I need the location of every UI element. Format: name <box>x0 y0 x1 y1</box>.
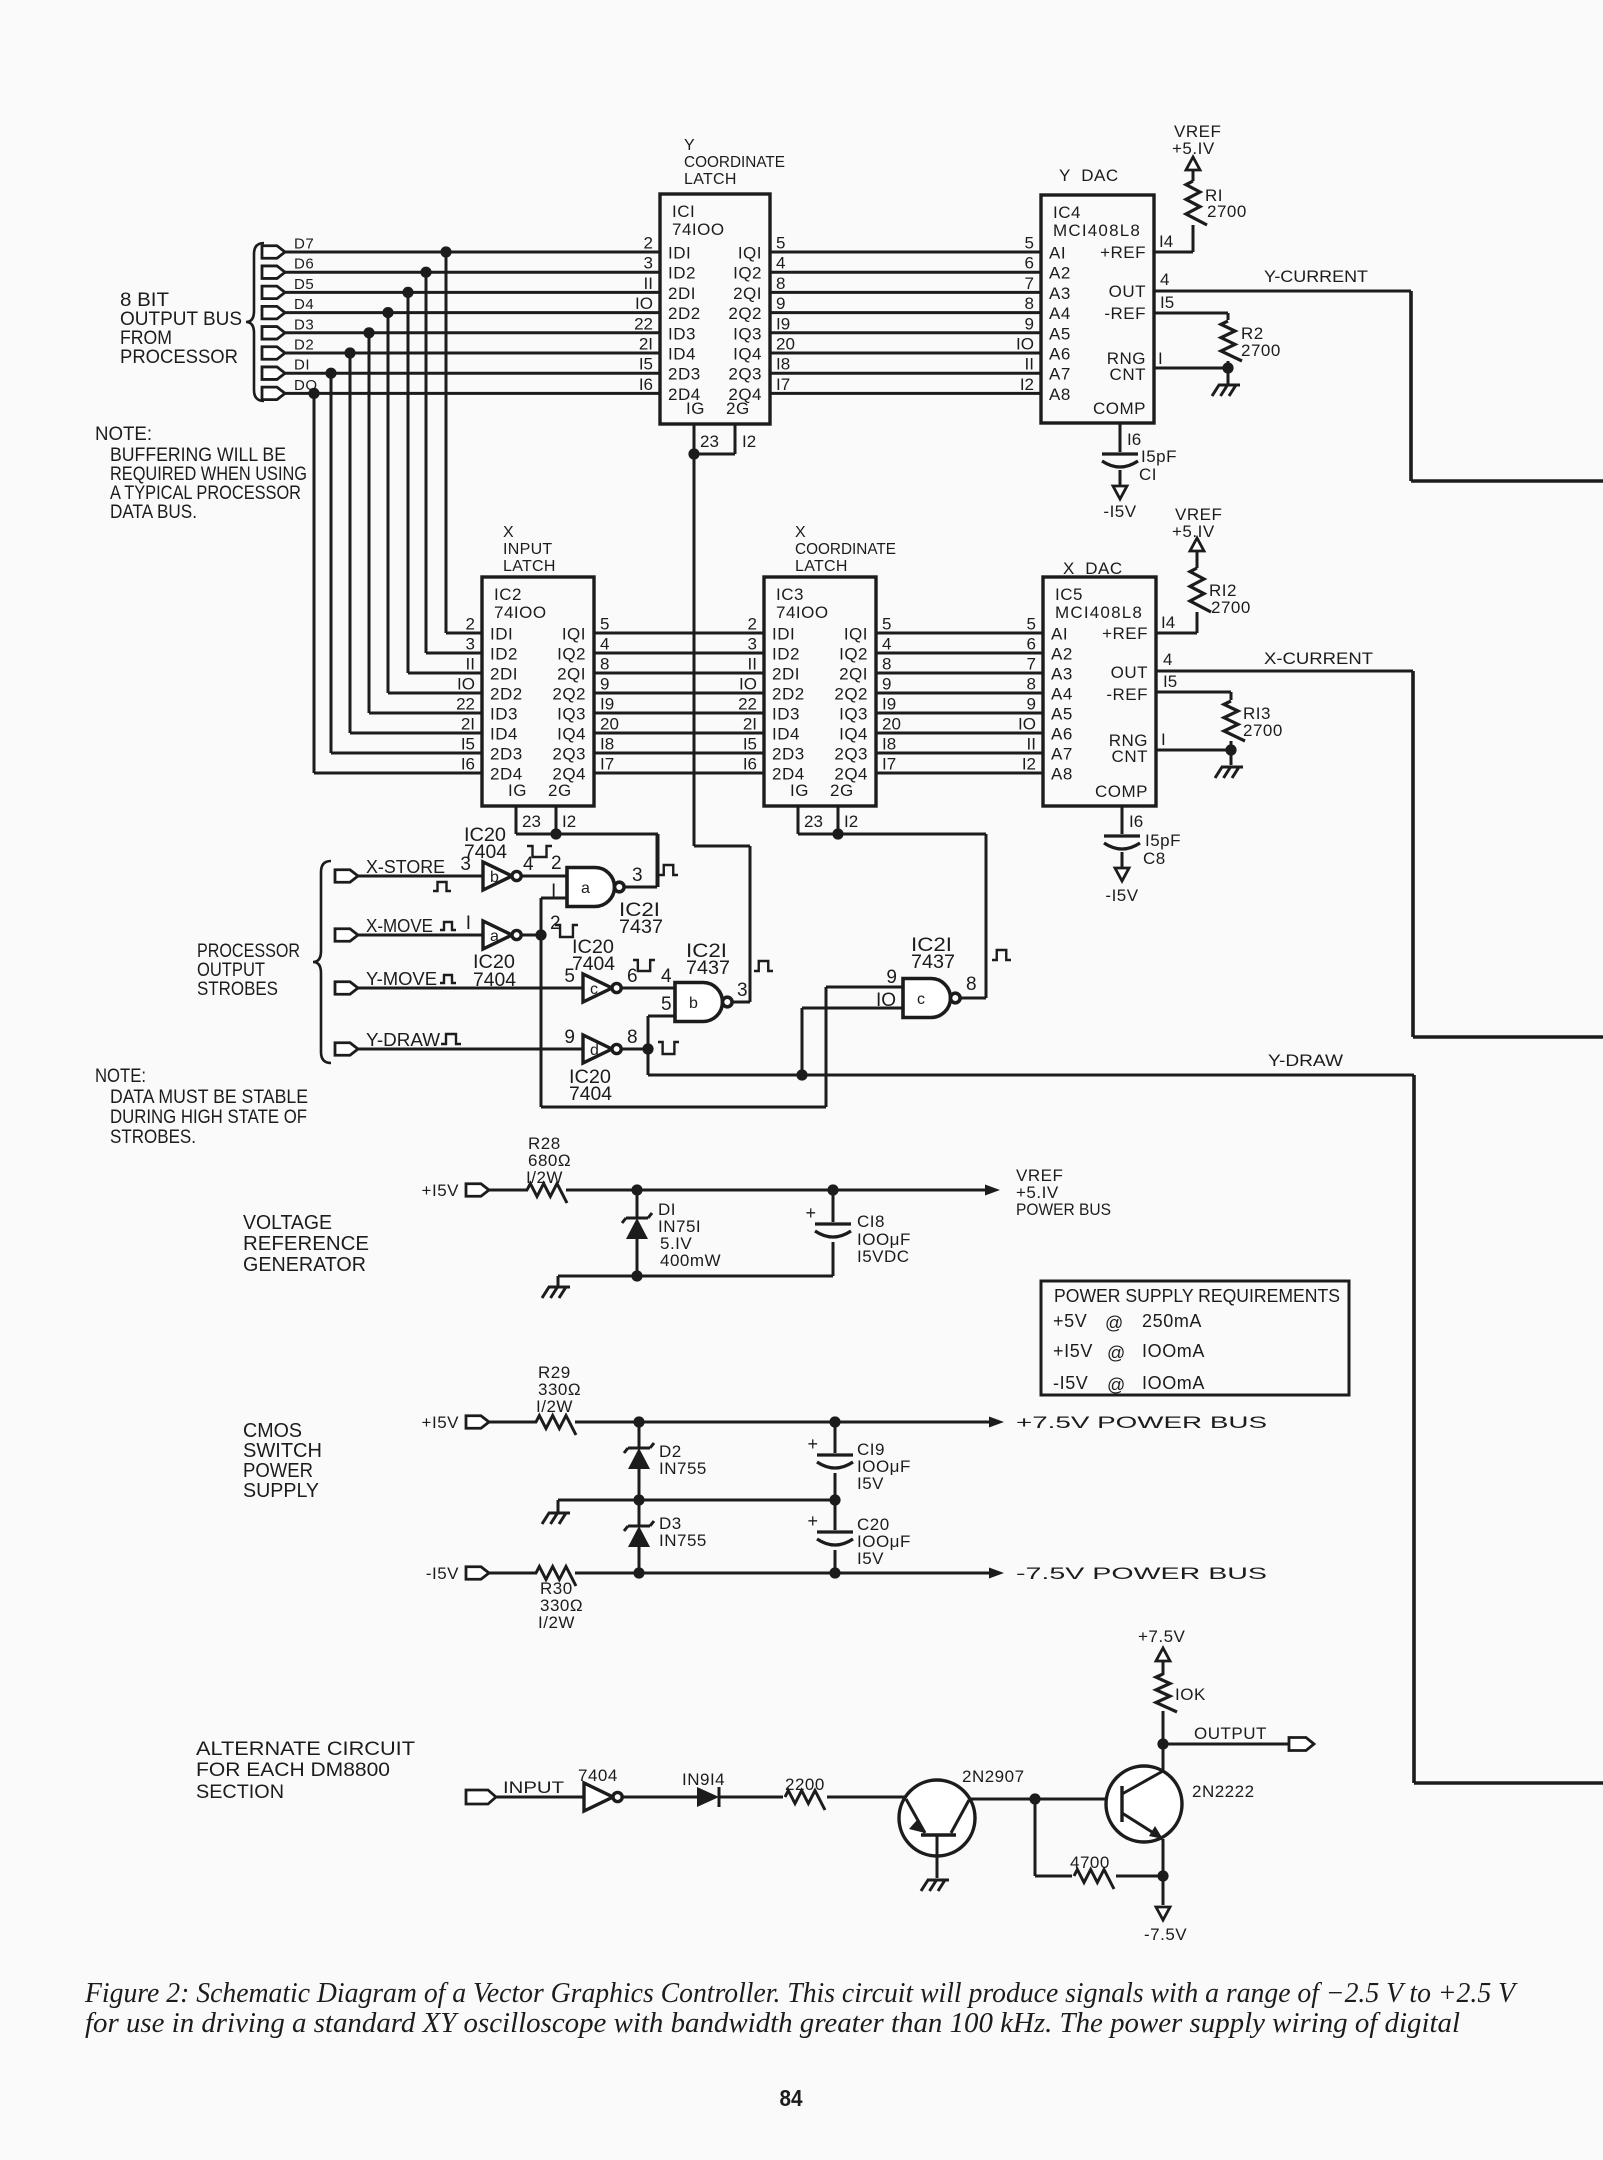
svg-text:A7: A7 <box>1049 365 1071 384</box>
svg-text:3: 3 <box>748 635 757 654</box>
svg-text:AI: AI <box>1049 244 1066 263</box>
svg-text:NOTE:: NOTE: <box>95 1066 146 1087</box>
svg-text:+REF: +REF <box>1100 243 1146 262</box>
svg-text:2700: 2700 <box>1243 721 1283 740</box>
svg-text:9: 9 <box>1025 314 1034 333</box>
svg-text:II: II <box>1025 355 1034 374</box>
svg-text:BUFFERING WILL BE: BUFFERING WILL BE <box>110 445 286 466</box>
svg-text:74IOO: 74IOO <box>776 603 829 622</box>
svg-text:I5V: I5V <box>857 1549 884 1568</box>
svg-text:I2: I2 <box>562 812 576 831</box>
svg-text:8: 8 <box>627 1027 638 1048</box>
svg-text:I2: I2 <box>742 432 756 451</box>
svg-text:I4: I4 <box>1159 232 1173 251</box>
svg-text:ID2: ID2 <box>668 264 696 283</box>
svg-text:D4: D4 <box>294 296 314 313</box>
svg-text:2200: 2200 <box>785 1775 825 1794</box>
svg-text:b: b <box>490 869 499 886</box>
svg-text:2: 2 <box>551 853 562 874</box>
svg-text:IO: IO <box>1016 335 1034 354</box>
svg-text:INPUT: INPUT <box>503 541 553 558</box>
svg-text:I9: I9 <box>600 695 614 714</box>
svg-text:X: X <box>795 524 806 541</box>
svg-text:2D3: 2D3 <box>490 745 523 764</box>
svg-text:AI: AI <box>1051 625 1068 644</box>
svg-text:2: 2 <box>748 615 757 634</box>
svg-text:I: I <box>466 913 471 934</box>
svg-text:2D2: 2D2 <box>668 304 701 323</box>
svg-text:Y-DRAW: Y-DRAW <box>1268 1051 1343 1070</box>
svg-text:2700: 2700 <box>1241 341 1281 360</box>
svg-text:8: 8 <box>966 974 977 995</box>
svg-text:I6: I6 <box>743 755 757 774</box>
svg-text:-7.5V POWER BUS: -7.5V POWER BUS <box>1016 1564 1267 1583</box>
svg-text:3: 3 <box>632 865 643 886</box>
svg-text:-7.5V: -7.5V <box>1144 1925 1187 1944</box>
svg-text:A5: A5 <box>1049 324 1071 343</box>
svg-text:I9: I9 <box>882 695 896 714</box>
svg-text:ID2: ID2 <box>772 645 800 664</box>
svg-text:A2: A2 <box>1049 264 1071 283</box>
svg-text:4: 4 <box>776 254 785 273</box>
svg-text:3: 3 <box>737 980 748 1001</box>
svg-text:POWER SUPPLY REQUIREMENTS: POWER SUPPLY REQUIREMENTS <box>1054 1286 1340 1306</box>
svg-text:A5: A5 <box>1051 705 1073 724</box>
svg-text:SUPPLY: SUPPLY <box>243 1480 319 1502</box>
svg-text:X-STORE: X-STORE <box>366 857 445 877</box>
svg-text:6: 6 <box>627 966 638 987</box>
svg-text:9: 9 <box>564 1027 575 1048</box>
svg-text:7437: 7437 <box>686 958 730 979</box>
svg-text:SECTION: SECTION <box>196 1782 284 1803</box>
svg-text:COORDINATE: COORDINATE <box>684 154 785 171</box>
svg-text:IQ4: IQ4 <box>839 725 868 744</box>
svg-text:ALTERNATE CIRCUIT: ALTERNATE CIRCUIT <box>196 1739 415 1760</box>
svg-text:2D2: 2D2 <box>772 685 805 704</box>
svg-text:I7: I7 <box>600 755 614 774</box>
svg-text:2QI: 2QI <box>839 665 868 684</box>
svg-text:LATCH: LATCH <box>503 558 556 575</box>
svg-text:a: a <box>490 928 499 945</box>
svg-text:A TYPICAL PROCESSOR: A TYPICAL PROCESSOR <box>110 483 301 504</box>
svg-text:X DAC: X DAC <box>1063 559 1123 578</box>
svg-text:OUT: OUT <box>1109 282 1146 301</box>
svg-text:2DI: 2DI <box>772 665 800 684</box>
svg-text:+5V: +5V <box>1053 1311 1087 1331</box>
svg-text:A4: A4 <box>1049 304 1071 323</box>
svg-text:IG: IG <box>508 781 527 800</box>
svg-text:-I5V: -I5V <box>1053 1373 1088 1393</box>
svg-text:I/2W: I/2W <box>538 1613 575 1632</box>
svg-text:b: b <box>689 995 698 1012</box>
svg-text:IG: IG <box>686 399 705 418</box>
svg-text:ICI: ICI <box>672 202 695 221</box>
svg-text:23: 23 <box>522 812 541 831</box>
svg-text:X-MOVE: X-MOVE <box>366 916 433 936</box>
svg-text:REQUIRED WHEN USING: REQUIRED WHEN USING <box>110 464 307 485</box>
svg-text:CMOS: CMOS <box>243 1420 302 1442</box>
svg-text:I6: I6 <box>639 375 653 394</box>
svg-text:4700: 4700 <box>1070 1853 1110 1872</box>
svg-text:COORDINATE: COORDINATE <box>795 541 896 558</box>
svg-text:CI8: CI8 <box>857 1212 885 1231</box>
svg-text:+REF: +REF <box>1102 624 1148 643</box>
svg-text:IOOmA: IOOmA <box>1142 1373 1205 1393</box>
svg-text:PROCESSOR: PROCESSOR <box>197 941 300 962</box>
svg-text:I5VDC: I5VDC <box>857 1247 910 1266</box>
svg-text:X-CURRENT: X-CURRENT <box>1264 649 1373 668</box>
svg-text:2D3: 2D3 <box>668 365 701 384</box>
svg-text:2G: 2G <box>830 781 854 800</box>
svg-text:8: 8 <box>882 655 891 674</box>
svg-text:IN9I4: IN9I4 <box>682 1770 725 1789</box>
svg-text:7437: 7437 <box>911 952 955 973</box>
svg-text:2I: 2I <box>743 715 757 734</box>
svg-text:22: 22 <box>634 314 653 333</box>
svg-text:I5: I5 <box>461 735 475 754</box>
svg-text:MCI408L8: MCI408L8 <box>1055 603 1143 622</box>
svg-text:A8: A8 <box>1049 385 1071 404</box>
svg-text:IO: IO <box>1018 715 1036 734</box>
svg-text:+: + <box>807 1511 818 1531</box>
svg-text:IG: IG <box>790 781 809 800</box>
svg-text:2Q3: 2Q3 <box>728 365 762 384</box>
svg-text:5: 5 <box>564 966 575 987</box>
svg-text:-I5V: -I5V <box>1103 502 1136 521</box>
svg-text:I7: I7 <box>776 375 790 394</box>
svg-text:OUTPUT: OUTPUT <box>197 960 265 981</box>
svg-text:A6: A6 <box>1049 345 1071 364</box>
svg-text:I8: I8 <box>600 735 614 754</box>
svg-text:A3: A3 <box>1051 665 1073 684</box>
svg-text:2N2222: 2N2222 <box>1192 1782 1255 1801</box>
svg-text:9: 9 <box>1027 695 1036 714</box>
svg-text:4: 4 <box>600 635 609 654</box>
svg-text:20: 20 <box>882 715 901 734</box>
svg-text:A3: A3 <box>1049 284 1071 303</box>
svg-text:+I5V: +I5V <box>1053 1341 1093 1361</box>
svg-text:2Q3: 2Q3 <box>834 745 868 764</box>
svg-text:7437: 7437 <box>619 917 663 938</box>
svg-text:IO: IO <box>739 675 757 694</box>
svg-text:20: 20 <box>776 335 795 354</box>
svg-text:I5pF: I5pF <box>1145 831 1181 850</box>
svg-text:A8: A8 <box>1051 765 1073 784</box>
svg-text:4: 4 <box>1160 270 1169 289</box>
svg-text:IN755: IN755 <box>659 1531 707 1550</box>
svg-text:IO: IO <box>457 675 475 694</box>
svg-text:IC5: IC5 <box>1055 585 1083 604</box>
svg-text:+7.5V: +7.5V <box>1138 1627 1186 1646</box>
svg-text:A7: A7 <box>1051 745 1073 764</box>
svg-text:7: 7 <box>1027 655 1036 674</box>
svg-text:OUTPUT BUS: OUTPUT BUS <box>120 309 242 330</box>
svg-text:6: 6 <box>1025 254 1034 273</box>
svg-text:22: 22 <box>738 695 757 714</box>
svg-text:2D3: 2D3 <box>772 745 805 764</box>
svg-text:+I5V: +I5V <box>422 1181 460 1200</box>
svg-text:I6: I6 <box>1127 430 1141 449</box>
svg-text:I2: I2 <box>1022 755 1036 774</box>
svg-text:IDI: IDI <box>772 625 795 644</box>
svg-text:FROM: FROM <box>120 328 172 349</box>
svg-text:C8: C8 <box>1143 849 1166 868</box>
svg-text:2: 2 <box>644 234 653 253</box>
svg-text:I5: I5 <box>639 355 653 374</box>
svg-text:9: 9 <box>882 675 891 694</box>
svg-text:STROBES.: STROBES. <box>110 1127 196 1148</box>
svg-text:+I5V: +I5V <box>422 1413 460 1432</box>
svg-text:IC4: IC4 <box>1053 203 1081 222</box>
svg-text:7: 7 <box>1025 274 1034 293</box>
svg-text:2QI: 2QI <box>557 665 586 684</box>
svg-text:I6: I6 <box>1129 812 1143 831</box>
svg-text:Y-MOVE: Y-MOVE <box>366 969 437 989</box>
svg-text:23: 23 <box>700 432 719 451</box>
svg-text:I: I <box>1158 349 1163 368</box>
svg-text:c: c <box>917 991 925 1008</box>
svg-text:ID2: ID2 <box>490 645 518 664</box>
svg-text:ID3: ID3 <box>772 705 800 724</box>
svg-text:7404: 7404 <box>569 1084 612 1105</box>
svg-text:2I: 2I <box>461 715 475 734</box>
svg-text:ID4: ID4 <box>490 725 518 744</box>
svg-text:c: c <box>590 981 598 998</box>
svg-text:II: II <box>466 655 475 674</box>
svg-text:IQ3: IQ3 <box>839 705 868 724</box>
svg-text:-I5V: -I5V <box>426 1564 459 1583</box>
svg-text:IQI: IQI <box>844 625 868 644</box>
svg-text:D6: D6 <box>294 256 314 273</box>
svg-text:DATA MUST BE STABLE: DATA MUST BE STABLE <box>110 1087 308 1108</box>
svg-text:IO: IO <box>635 294 653 313</box>
svg-text:2QI: 2QI <box>733 284 762 303</box>
svg-text:5: 5 <box>661 994 672 1015</box>
svg-text:2700: 2700 <box>1211 598 1251 617</box>
svg-text:I4: I4 <box>1161 613 1175 632</box>
svg-text:A4: A4 <box>1051 685 1073 704</box>
svg-text:6: 6 <box>1027 635 1036 654</box>
svg-text:@: @ <box>1107 1375 1125 1395</box>
svg-text:8 BIT: 8 BIT <box>120 290 169 311</box>
svg-text:COMP: COMP <box>1093 399 1146 418</box>
svg-text:+5.IV: +5.IV <box>1172 139 1215 158</box>
svg-text:Y-CURRENT: Y-CURRENT <box>1264 267 1368 286</box>
svg-text:ID3: ID3 <box>668 324 696 343</box>
svg-text:2N2907: 2N2907 <box>962 1767 1025 1786</box>
svg-text:I7: I7 <box>882 755 896 774</box>
svg-text:74IOO: 74IOO <box>672 220 725 239</box>
svg-text:LATCH: LATCH <box>795 558 848 575</box>
svg-text:I6: I6 <box>461 755 475 774</box>
svg-text:CI: CI <box>1139 465 1157 484</box>
svg-text:I5: I5 <box>1163 672 1177 691</box>
svg-text:2Q2: 2Q2 <box>834 685 868 704</box>
svg-text:7404: 7404 <box>572 954 615 975</box>
svg-text:2700: 2700 <box>1207 202 1247 221</box>
svg-text:II: II <box>644 274 653 293</box>
svg-text:I5: I5 <box>1160 293 1174 312</box>
svg-text:IN755: IN755 <box>659 1459 707 1478</box>
svg-text:a: a <box>581 880 590 897</box>
svg-text:D3: D3 <box>294 316 314 333</box>
svg-text:I5V: I5V <box>857 1474 884 1493</box>
svg-text:LATCH: LATCH <box>684 171 737 188</box>
svg-text:PROCESSOR: PROCESSOR <box>120 347 238 368</box>
svg-text:+7.5V POWER BUS: +7.5V POWER BUS <box>1016 1413 1267 1432</box>
svg-text:DURING HIGH STATE OF: DURING HIGH STATE OF <box>110 1107 307 1128</box>
svg-text:2Q2: 2Q2 <box>728 304 762 323</box>
svg-text:250mA: 250mA <box>1142 1311 1202 1331</box>
svg-text:ID4: ID4 <box>772 725 800 744</box>
svg-text:IQ3: IQ3 <box>557 705 586 724</box>
svg-text:Y DAC: Y DAC <box>1059 166 1119 185</box>
svg-text:OUT: OUT <box>1111 663 1148 682</box>
svg-text:+: + <box>805 1203 816 1223</box>
svg-text:I5pF: I5pF <box>1141 447 1177 466</box>
svg-text:MCI408L8: MCI408L8 <box>1053 221 1141 240</box>
svg-text:8: 8 <box>600 655 609 674</box>
svg-text:22: 22 <box>456 695 475 714</box>
svg-text:I9: I9 <box>776 314 790 333</box>
svg-text:IQI: IQI <box>738 244 762 263</box>
svg-text:I2: I2 <box>1020 375 1034 394</box>
svg-text:POWER BUS: POWER BUS <box>1016 1200 1111 1219</box>
svg-text:d: d <box>590 1042 599 1059</box>
svg-text:+5.IV: +5.IV <box>1172 522 1215 541</box>
svg-text:II: II <box>1027 735 1036 754</box>
svg-text:5: 5 <box>776 234 785 253</box>
svg-text:Y: Y <box>684 137 695 154</box>
svg-text:REFERENCE: REFERENCE <box>243 1233 369 1255</box>
svg-text:STROBES: STROBES <box>197 979 278 1000</box>
svg-text:VOLTAGE: VOLTAGE <box>243 1212 332 1234</box>
svg-text:IQ3: IQ3 <box>733 324 762 343</box>
svg-text:@: @ <box>1107 1343 1125 1363</box>
svg-text:23: 23 <box>804 812 823 831</box>
svg-text:9: 9 <box>600 675 609 694</box>
svg-text:I: I <box>1161 730 1166 749</box>
svg-text:7404: 7404 <box>578 1766 618 1785</box>
svg-text:9: 9 <box>886 967 897 988</box>
svg-text:ID3: ID3 <box>490 705 518 724</box>
svg-text:@: @ <box>1105 1313 1123 1333</box>
svg-text:D5: D5 <box>294 276 314 293</box>
svg-text:D7: D7 <box>294 236 314 253</box>
svg-text:FOR EACH DM8800: FOR EACH DM8800 <box>196 1760 390 1781</box>
svg-text:3: 3 <box>466 635 475 654</box>
svg-text:2Q2: 2Q2 <box>552 685 586 704</box>
svg-text:2DI: 2DI <box>490 665 518 684</box>
svg-text:IQI: IQI <box>562 625 586 644</box>
svg-text:POWER: POWER <box>243 1460 313 1482</box>
svg-text:-REF: -REF <box>1104 304 1146 323</box>
svg-text:Figure 2: Schematic Diagram of: Figure 2: Schematic Diagram of a Vector … <box>84 1978 1518 2009</box>
svg-text:9: 9 <box>776 294 785 313</box>
svg-text:I8: I8 <box>776 355 790 374</box>
svg-text:I5: I5 <box>743 735 757 754</box>
svg-text:7404: 7404 <box>464 842 507 863</box>
svg-text:CNT: CNT <box>1112 747 1148 766</box>
svg-text:5: 5 <box>600 615 609 634</box>
svg-text:A6: A6 <box>1051 725 1073 744</box>
svg-text:DI: DI <box>294 357 310 374</box>
svg-text:IDI: IDI <box>490 625 513 644</box>
svg-text:IQ2: IQ2 <box>557 645 586 664</box>
svg-text:D2: D2 <box>294 337 314 354</box>
svg-text:2DI: 2DI <box>668 284 696 303</box>
svg-text:2G: 2G <box>726 399 750 418</box>
svg-text:I/2W: I/2W <box>536 1397 573 1416</box>
svg-text:2I: 2I <box>639 335 653 354</box>
svg-text:8: 8 <box>776 274 785 293</box>
svg-text:IQ2: IQ2 <box>733 264 762 283</box>
svg-text:4: 4 <box>1163 650 1172 669</box>
svg-text:400mW: 400mW <box>660 1251 721 1270</box>
svg-text:I2: I2 <box>844 812 858 831</box>
svg-text:IO: IO <box>876 990 896 1011</box>
svg-text:IOK: IOK <box>1175 1685 1206 1704</box>
svg-text:74IOO: 74IOO <box>494 603 547 622</box>
svg-text:for use in driving a standard: for use in driving a standard XY oscillo… <box>85 2008 1460 2039</box>
svg-text:3: 3 <box>644 254 653 273</box>
svg-text:IC3: IC3 <box>776 585 804 604</box>
svg-text:IQ4: IQ4 <box>557 725 586 744</box>
svg-text:I/2W: I/2W <box>526 1168 563 1187</box>
svg-text:2: 2 <box>466 615 475 634</box>
svg-text:NOTE:: NOTE: <box>95 424 152 445</box>
svg-text:IQ2: IQ2 <box>839 645 868 664</box>
svg-text:8: 8 <box>1025 294 1034 313</box>
svg-text:IQ4: IQ4 <box>733 345 762 364</box>
svg-text:SWITCH: SWITCH <box>243 1440 322 1462</box>
svg-text:-I5V: -I5V <box>1105 886 1138 905</box>
svg-text:4: 4 <box>661 966 672 987</box>
svg-text:+: + <box>807 1434 818 1454</box>
svg-text:OUTPUT: OUTPUT <box>1194 1724 1267 1743</box>
svg-text:A2: A2 <box>1051 645 1073 664</box>
svg-text:2G: 2G <box>548 781 572 800</box>
svg-text:DATA BUS.: DATA BUS. <box>110 502 197 523</box>
svg-text:2D2: 2D2 <box>490 685 523 704</box>
svg-text:INPUT: INPUT <box>503 1778 564 1797</box>
svg-text:GENERATOR: GENERATOR <box>243 1254 366 1276</box>
svg-text:4: 4 <box>882 635 891 654</box>
svg-text:5: 5 <box>1025 234 1034 253</box>
svg-text:IOOmA: IOOmA <box>1142 1341 1205 1361</box>
svg-text:Y-DRAW: Y-DRAW <box>366 1030 440 1050</box>
svg-text:X: X <box>503 524 514 541</box>
svg-text:IDI: IDI <box>668 244 691 263</box>
svg-text:IC2: IC2 <box>494 585 522 604</box>
svg-text:CNT: CNT <box>1110 365 1146 384</box>
svg-text:-REF: -REF <box>1106 685 1148 704</box>
svg-text:5: 5 <box>882 615 891 634</box>
svg-text:84: 84 <box>780 2085 803 2111</box>
svg-text:8: 8 <box>1027 675 1036 694</box>
svg-text:2Q3: 2Q3 <box>552 745 586 764</box>
svg-text:II: II <box>748 655 757 674</box>
svg-text:COMP: COMP <box>1095 782 1148 801</box>
svg-text:I8: I8 <box>882 735 896 754</box>
svg-text:20: 20 <box>600 715 619 734</box>
svg-text:5: 5 <box>1027 615 1036 634</box>
svg-text:ID4: ID4 <box>668 345 696 364</box>
